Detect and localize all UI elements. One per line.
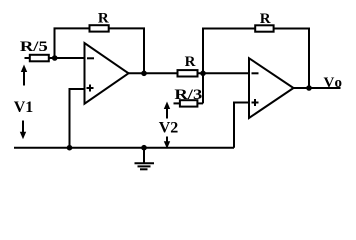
wire feedback right to output node U2 (274, 29, 309, 89)
wire feedback left vertical U1 (55, 28, 90, 58)
ground (143, 148, 145, 164)
op-amp U1 plus pin (87, 85, 94, 92)
V1 arrow up (21, 65, 27, 86)
svg-text:V2: V2 (159, 120, 179, 137)
resistor R/5 (30, 55, 49, 62)
V2 arrow up (164, 102, 170, 119)
op-amp U1 minus pin (87, 57, 94, 59)
svg-text:R: R (98, 11, 109, 27)
node junction dot bus / ground (141, 145, 147, 151)
node A junction dot (200, 71, 206, 77)
node junction dot U1 output (141, 71, 147, 77)
wire U2 output to Vo terminal (294, 87, 341, 89)
wire node A vertical (feedback U2 and R/3 branch) (203, 29, 255, 104)
wire R/3 left stub (174, 102, 180, 104)
op-amp U2 (249, 58, 294, 118)
wire R/5 to op-amp U1 inverting input (49, 57, 85, 59)
resistor R (series between stages) (178, 70, 198, 76)
wire feedback right to output node U1 (109, 28, 144, 73)
svg-text:Vo: Vo (324, 75, 344, 91)
node junction dot R/5 output (52, 55, 58, 61)
wire R/3 to node A (197, 102, 203, 104)
wire V1 input stub (25, 57, 30, 59)
wire U2 non-inverting input to ground bus (234, 103, 249, 148)
V2 arrow down (164, 137, 170, 149)
wire U1 output to resistor R series (129, 72, 178, 74)
V1 arrow down (20, 121, 26, 140)
svg-text:R: R (185, 54, 196, 70)
svg-text:R/5: R/5 (20, 38, 48, 55)
op-amp U2 plus pin (252, 99, 259, 106)
svg-text:R: R (260, 11, 271, 27)
svg-text:V1: V1 (14, 99, 34, 116)
wire ground bus (14, 147, 234, 149)
resistor R (feedback U1) (90, 25, 109, 31)
resistor R (feedback U2) (255, 25, 273, 31)
svg-text:R/3: R/3 (174, 86, 202, 103)
node junction dot bus / U1 plus branch (67, 145, 73, 151)
op-amp U2 minus pin (252, 72, 259, 74)
wire node A to op-amp U2 inverting input (198, 72, 250, 74)
resistor R/3 (180, 100, 198, 106)
node junction dot U2 output (306, 85, 312, 91)
wire U1 non-inverting input to ground bus (70, 89, 85, 148)
op-amp U1 (85, 43, 129, 104)
